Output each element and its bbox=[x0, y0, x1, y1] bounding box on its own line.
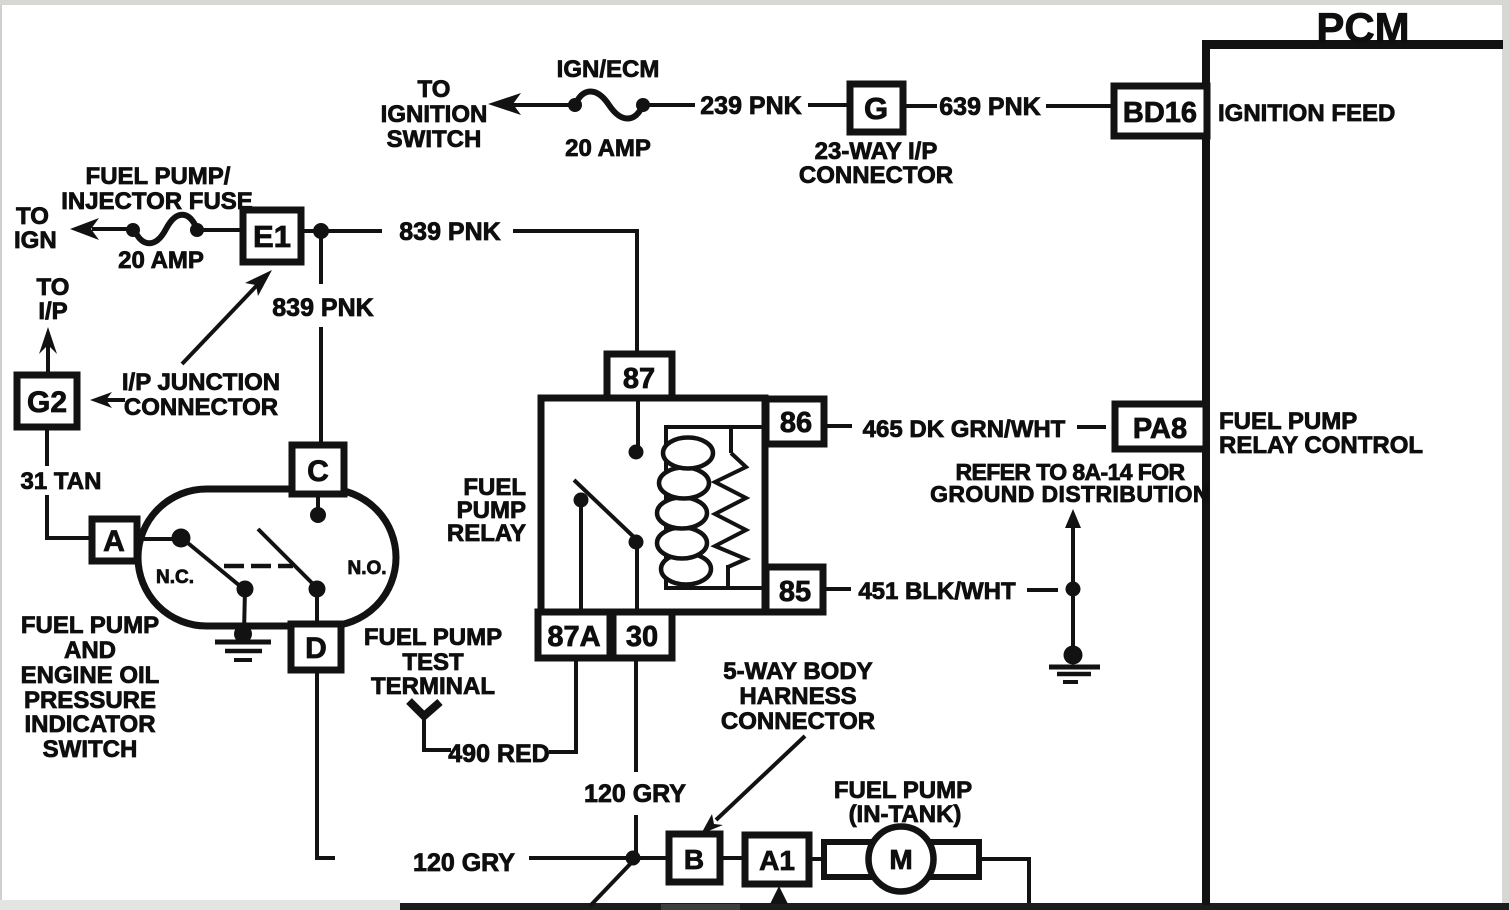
svg-text:IGNITION: IGNITION bbox=[381, 101, 488, 128]
svg-text:SWITCH: SWITCH bbox=[43, 736, 138, 763]
wire 86 to 465 wire bbox=[825, 424, 852, 428]
svg-text:INJECTOR FUSE: INJECTOR FUSE bbox=[61, 188, 253, 215]
svg-text:839 PNK: 839 PNK bbox=[399, 218, 500, 246]
wire 839 PNK drop upper segment (to C) bbox=[319, 231, 323, 284]
svg-text:120 GRY: 120 GRY bbox=[584, 780, 686, 808]
wire 30 contact down bbox=[635, 547, 639, 610]
arrowhead to IGN bbox=[70, 218, 99, 240]
ground node dot (451) bbox=[1064, 646, 1083, 665]
svg-text:FUEL PUMP: FUEL PUMP bbox=[21, 612, 159, 639]
svg-text:SWITCH: SWITCH bbox=[387, 126, 482, 153]
relay coil loop 2 bbox=[659, 468, 709, 499]
wire 31 TAN lower bbox=[47, 495, 92, 538]
wire 639 PNK right segment bbox=[1046, 104, 1114, 108]
svg-text:FUEL PUMP/: FUEL PUMP/ bbox=[86, 163, 231, 190]
relay terminal 85 box bbox=[766, 567, 823, 612]
svg-text:23-WAY I/P: 23-WAY I/P bbox=[815, 138, 938, 165]
relay terminal 86 box bbox=[766, 399, 824, 444]
svg-text:D: D bbox=[305, 632, 327, 665]
connector A1 box bbox=[745, 835, 809, 884]
fuel pump / oil pressure switch body (oval) bbox=[138, 489, 396, 626]
svg-text:490 RED: 490 RED bbox=[448, 740, 549, 768]
svg-text:CONNECTOR: CONNECTOR bbox=[721, 708, 875, 735]
N.C. switch blade bbox=[183, 539, 240, 586]
svg-text:30: 30 bbox=[626, 621, 658, 653]
wire to ignition switch bbox=[500, 103, 575, 107]
fuse IGN/ECM 20 AMP: right terminal dot bbox=[636, 98, 650, 112]
bottom black bar bbox=[400, 903, 1509, 910]
wire A into switch bbox=[137, 537, 181, 541]
svg-text:PRESSURE: PRESSURE bbox=[24, 687, 156, 714]
wire stub diagonal below junction bbox=[590, 860, 634, 906]
svg-text:N.O.: N.O. bbox=[347, 558, 386, 579]
svg-text:INDICATOR: INDICATOR bbox=[24, 711, 155, 738]
arrowhead up at A1 bbox=[770, 886, 788, 904]
connector G2 box bbox=[17, 375, 77, 427]
wire 85 to 451 wire bbox=[823, 587, 851, 591]
arrowhead pointing at E1 bbox=[245, 270, 272, 296]
wire 87A down to 490 RED bbox=[574, 658, 578, 754]
wire N.C. contact to ground bbox=[244, 589, 245, 633]
svg-text:BD16: BD16 bbox=[1123, 97, 1197, 129]
svg-text:G2: G2 bbox=[27, 386, 67, 419]
wire dash before PA8 bbox=[1077, 425, 1106, 429]
svg-text:N.C.: N.C. bbox=[156, 567, 194, 588]
wire E1 to 839 PNK bbox=[301, 229, 382, 233]
wire 30 down lower segment bbox=[634, 815, 638, 858]
svg-text:IGN: IGN bbox=[14, 227, 57, 254]
relay resistor top stub bbox=[729, 427, 733, 453]
node: relay common pivot bbox=[574, 493, 589, 508]
svg-text:85: 85 bbox=[779, 576, 811, 608]
test terminal stem bbox=[424, 714, 451, 750]
connector B box bbox=[669, 834, 720, 882]
svg-text:FUEL PUMP: FUEL PUMP bbox=[834, 777, 972, 804]
fuel pump motor body bbox=[824, 842, 979, 877]
relay terminal 30 box bbox=[613, 612, 672, 658]
connector C box bbox=[292, 445, 344, 494]
wire pivot to 87A bbox=[579, 505, 583, 610]
svg-text:20 AMP: 20 AMP bbox=[565, 135, 651, 162]
svg-text:A1: A1 bbox=[759, 845, 795, 876]
svg-text:FUEL PUMP: FUEL PUMP bbox=[364, 624, 502, 651]
svg-text:TO: TO bbox=[37, 274, 70, 301]
relay coil frame bottom bbox=[664, 586, 763, 590]
wire 839 PNK drop to relay 87 bbox=[635, 229, 639, 354]
N.O. switch blade bbox=[258, 529, 316, 587]
wire C to contact node bbox=[316, 494, 320, 510]
svg-text:FUEL PUMP: FUEL PUMP bbox=[1219, 408, 1357, 435]
node: N.O. lower contact bbox=[309, 581, 326, 598]
connector G box bbox=[850, 84, 903, 132]
page border right bbox=[1502, 5, 1509, 903]
wire 839 PNK drop lower segment (to C) bbox=[319, 327, 323, 447]
fuse FUEL PUMP/INJECTOR 20 AMP: left terminal dot bbox=[126, 223, 140, 237]
wire G2 to 31 TAN upper bbox=[45, 427, 49, 466]
wire dash before ground run bbox=[1027, 588, 1058, 592]
connector BD16 box bbox=[1114, 86, 1207, 136]
svg-text:A: A bbox=[103, 525, 125, 558]
page border top bbox=[0, 0, 1509, 5]
wire 120 GRY to B bbox=[529, 856, 669, 860]
wire N.O. contact to D bbox=[315, 593, 319, 626]
svg-text:87: 87 bbox=[623, 363, 655, 395]
wire A1 to motor bbox=[809, 857, 826, 861]
wire G2 to I/P arrow bbox=[46, 341, 50, 375]
svg-text:HARNESS: HARNESS bbox=[739, 683, 856, 710]
node: N.C. switch pivot bbox=[172, 529, 191, 548]
relay coil loop 5 bbox=[661, 554, 711, 585]
node: N.C. lower contact bbox=[237, 581, 254, 598]
test terminal symbol bbox=[409, 701, 440, 716]
bottom bar lighter patch bbox=[661, 904, 740, 910]
page border left bbox=[0, 5, 2, 900]
svg-text:239 PNK: 239 PNK bbox=[700, 92, 801, 120]
wire 239 PNK left segment bbox=[649, 103, 695, 107]
arrow line pointing at E1 bbox=[182, 280, 262, 364]
svg-text:639 PNK: 639 PNK bbox=[939, 93, 1040, 121]
svg-text:PCM: PCM bbox=[1316, 4, 1409, 51]
node: relay 87 contact bbox=[629, 445, 644, 460]
connector D box bbox=[291, 624, 341, 670]
fuse FUEL PUMP/INJECTOR 20 AMP: right terminal dot bbox=[190, 223, 204, 237]
svg-text:ENGINE OIL: ENGINE OIL bbox=[21, 662, 160, 689]
svg-text:20 AMP: 20 AMP bbox=[118, 247, 204, 274]
wire 30 down upper segment bbox=[634, 658, 638, 772]
svg-text:I/P JUNCTION: I/P JUNCTION bbox=[122, 369, 280, 396]
relay switch blade bbox=[574, 480, 637, 540]
wire 87 into relay bbox=[636, 398, 640, 446]
svg-text:CONNECTOR: CONNECTOR bbox=[124, 394, 278, 421]
arrowhead pointing at B bbox=[701, 814, 723, 834]
arrowhead to ignition switch bbox=[488, 93, 521, 115]
wire to IGN bbox=[92, 227, 133, 231]
connector PA8 box bbox=[1115, 404, 1206, 449]
svg-text:RELAY: RELAY bbox=[447, 520, 526, 547]
ground symbol (switch) bbox=[215, 640, 271, 645]
junction node 451 bbox=[1066, 582, 1081, 597]
arrowhead to I/P bbox=[39, 327, 57, 354]
junction node 120 GRY bbox=[626, 851, 641, 866]
relay coil loop 4 bbox=[657, 528, 707, 559]
svg-text:C: C bbox=[307, 455, 329, 488]
wire ground distribution vertical bbox=[1071, 523, 1075, 652]
fuse IGN/ECM 20 AMP: fuse element squiggle bbox=[575, 92, 643, 119]
relay coil frame top bbox=[664, 425, 763, 429]
node: C contact bbox=[310, 507, 326, 523]
wire B to A1 bbox=[720, 856, 745, 860]
svg-text:E1: E1 bbox=[253, 219, 291, 254]
svg-text:IGN/ECM: IGN/ECM bbox=[557, 56, 660, 83]
svg-text:RELAY CONTROL: RELAY CONTROL bbox=[1219, 432, 1423, 459]
wire motor output bbox=[979, 859, 1029, 903]
relay coil loop 3 bbox=[657, 498, 707, 529]
wire 490 RED dash bbox=[549, 750, 577, 754]
svg-text:TO: TO bbox=[418, 76, 451, 103]
svg-text:86: 86 bbox=[780, 407, 812, 439]
PCM module outline: top horizontal line bbox=[1202, 40, 1503, 49]
connector A box bbox=[92, 519, 137, 561]
connector E1 box bbox=[243, 210, 301, 262]
svg-text:M: M bbox=[889, 844, 912, 875]
svg-text:AND: AND bbox=[64, 637, 116, 664]
bottom gray strip bbox=[0, 900, 400, 910]
svg-text:465 DK GRN/WHT: 465 DK GRN/WHT bbox=[863, 416, 1066, 443]
ground symbol (451) bbox=[1049, 665, 1100, 670]
svg-text:G: G bbox=[864, 91, 888, 126]
wire D down to 120 GRY run bbox=[317, 670, 335, 858]
node: relay 30 contact bbox=[629, 535, 644, 550]
svg-text:PA8: PA8 bbox=[1133, 413, 1187, 445]
PCM module outline: vertical line bbox=[1202, 44, 1210, 905]
svg-text:31 TAN: 31 TAN bbox=[21, 468, 102, 495]
relay coil loop 1 bbox=[663, 438, 713, 469]
fuel pump relay box bbox=[541, 398, 765, 612]
arrow line pointing at B bbox=[716, 736, 805, 820]
wire fuse to E1 bbox=[203, 228, 243, 232]
wire 839 PNK right segment bbox=[513, 229, 639, 233]
relay coil frame left bbox=[664, 427, 668, 588]
svg-text:87A: 87A bbox=[547, 621, 600, 653]
ground node dot (switch) bbox=[234, 625, 252, 643]
arrowhead pointing at G2 bbox=[90, 392, 112, 408]
fuse IGN/ECM 20 AMP: left terminal dot bbox=[568, 98, 582, 112]
junction node at E1 output bbox=[313, 223, 329, 239]
svg-text:I/P: I/P bbox=[38, 298, 67, 325]
svg-text:TEST: TEST bbox=[402, 649, 464, 676]
wire 239 PNK right segment bbox=[808, 103, 850, 107]
svg-text:TO: TO bbox=[16, 203, 49, 230]
svg-text:IGNITION FEED: IGNITION FEED bbox=[1218, 100, 1395, 127]
dashed link between switch blades bbox=[224, 564, 293, 569]
fuse FUEL PUMP/INJECTOR 20 AMP: fuse element squiggle bbox=[134, 215, 197, 244]
svg-text:GROUND DISTRIBUTION: GROUND DISTRIBUTION bbox=[930, 481, 1210, 507]
svg-text:B: B bbox=[684, 844, 704, 875]
wire 639 PNK left segment bbox=[903, 104, 937, 108]
svg-text:451 BLK/WHT: 451 BLK/WHT bbox=[858, 578, 1016, 605]
relay resistor zigzag bbox=[715, 453, 746, 567]
svg-text:5-WAY BODY: 5-WAY BODY bbox=[723, 658, 872, 685]
svg-text:120 GRY: 120 GRY bbox=[413, 849, 515, 877]
fuel pump motor circle M bbox=[869, 827, 934, 892]
svg-text:TERMINAL: TERMINAL bbox=[371, 673, 495, 700]
relay terminal 87 box bbox=[607, 354, 672, 398]
arrow line pointing at G2 bbox=[103, 398, 125, 402]
svg-text:839 PNK: 839 PNK bbox=[272, 294, 373, 322]
relay resistor bottom stub bbox=[726, 565, 730, 588]
relay terminal 87A box bbox=[538, 612, 610, 658]
arrowhead up (ground distribution) bbox=[1065, 509, 1081, 528]
svg-text:CONNECTOR: CONNECTOR bbox=[799, 162, 953, 189]
